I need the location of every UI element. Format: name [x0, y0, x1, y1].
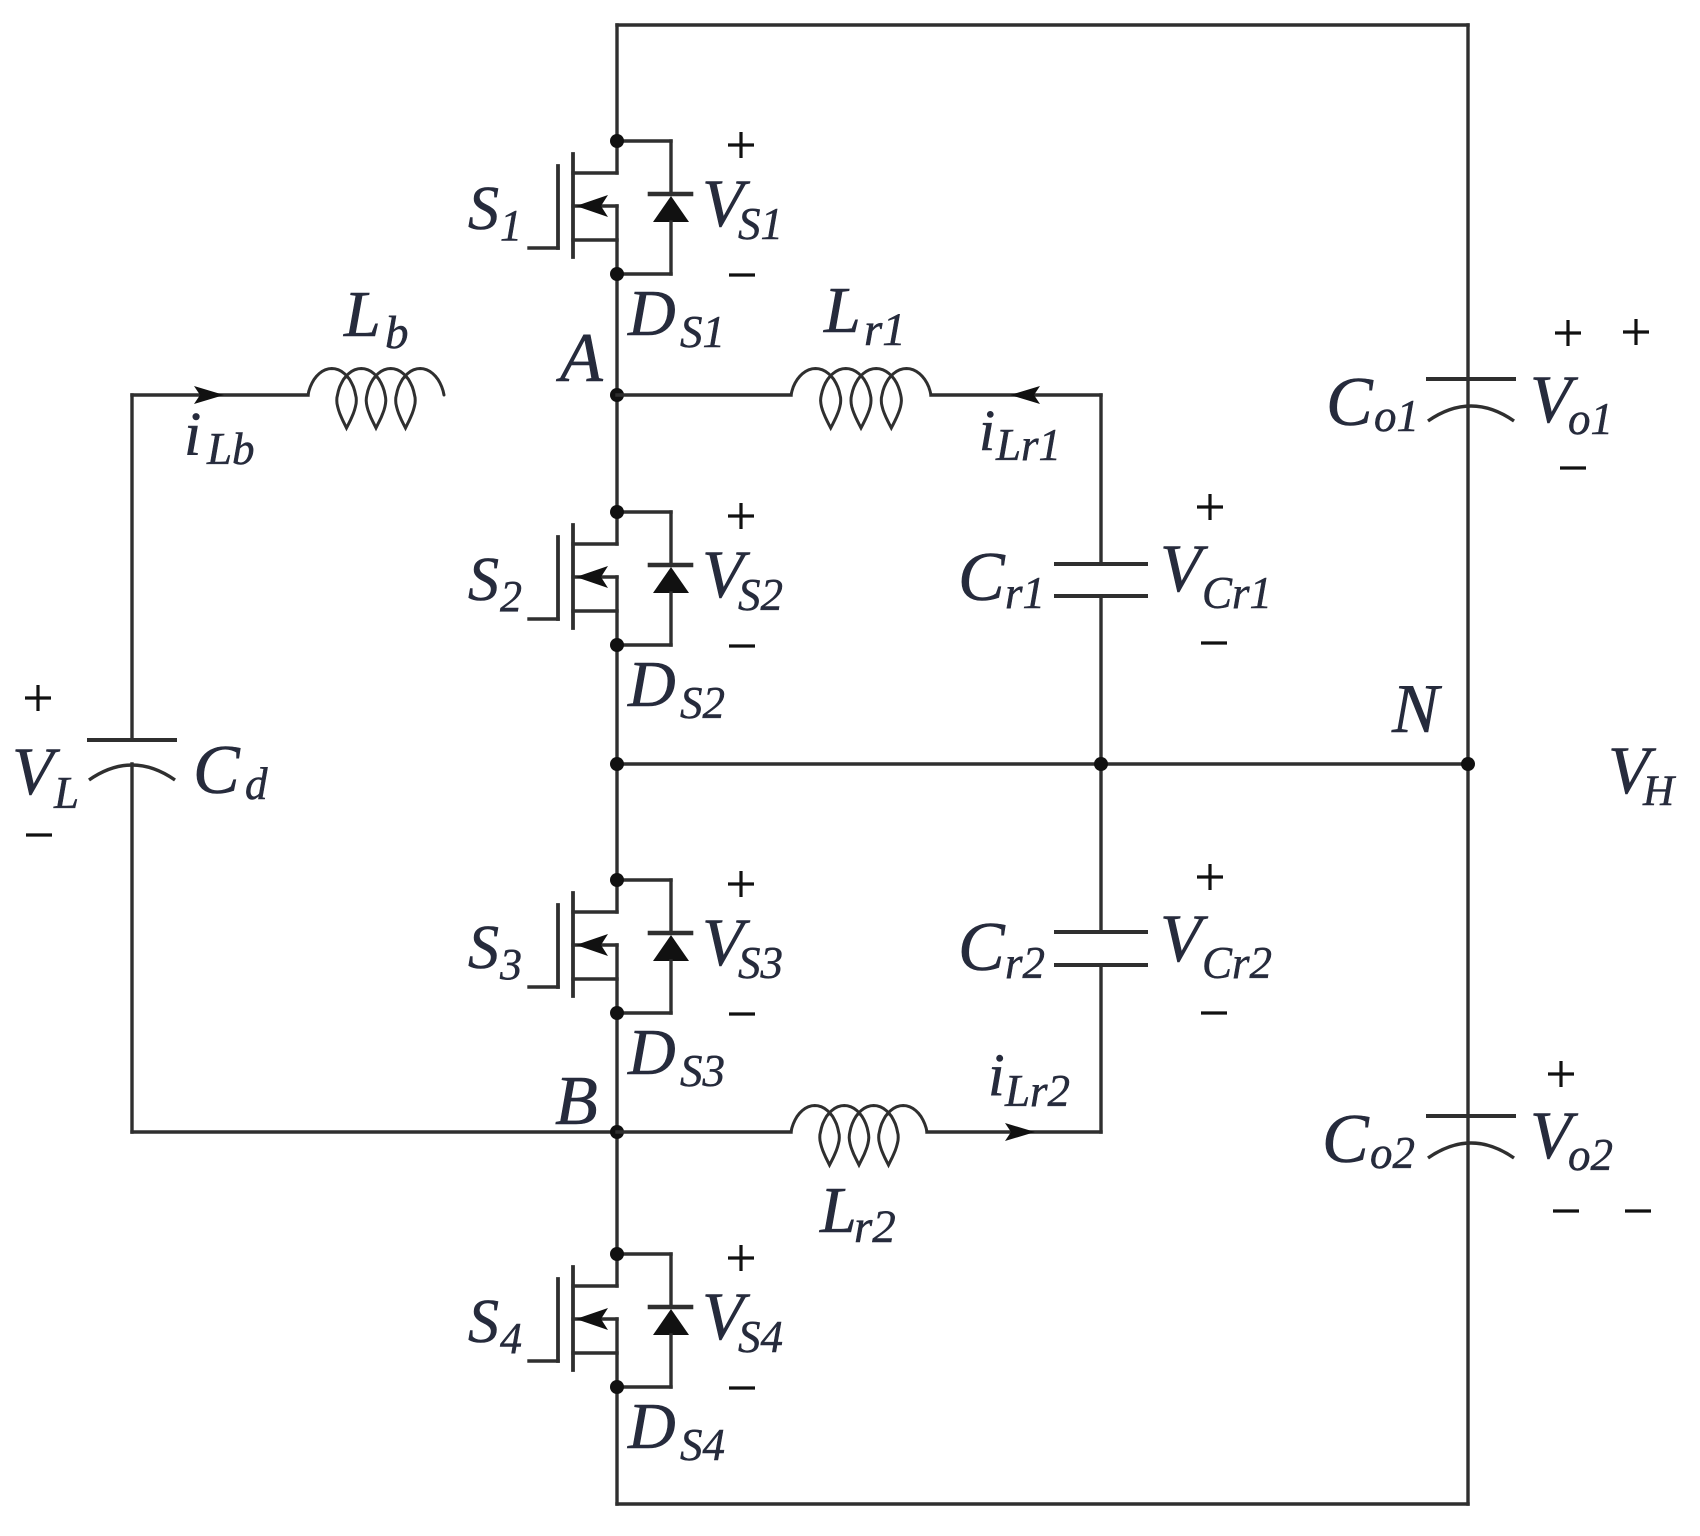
- svg-text:Lr1: Lr1: [995, 420, 1061, 470]
- svg-text:N: N: [1391, 671, 1442, 748]
- svg-text:S1: S1: [738, 199, 783, 249]
- svg-text:r2: r2: [854, 1201, 896, 1253]
- body diode D_S4: [617, 1254, 691, 1387]
- label Vo2 with polarity: [1530, 1061, 1613, 1211]
- label VL with polarity: [12, 685, 79, 835]
- wire: node B to S4 drain: [615, 1132, 618, 1254]
- svg-text:o1: o1: [1374, 391, 1419, 441]
- node B dot: [610, 1125, 624, 1139]
- svg-text:S3: S3: [738, 938, 783, 988]
- current arrow iLr1 (points left): [1010, 386, 1040, 404]
- svg-text:S3: S3: [680, 1046, 725, 1096]
- svg-text:C: C: [958, 909, 1006, 986]
- svg-text:r1: r1: [1005, 568, 1045, 618]
- inductor Lr2: [791, 1106, 927, 1166]
- wire: S3 source to node B: [615, 1014, 618, 1132]
- current arrow iLb: [194, 386, 224, 404]
- svg-text:B: B: [555, 1063, 598, 1140]
- svg-text:Cr1: Cr1: [1202, 568, 1272, 618]
- junction dot source S2: [610, 638, 624, 652]
- label V_S1 with polarity: [702, 132, 783, 275]
- wire: top rail: [617, 23, 1468, 26]
- svg-text:4: 4: [500, 1314, 522, 1363]
- current arrow iLr2 (points right): [1005, 1123, 1035, 1141]
- node N dot: [1461, 757, 1475, 771]
- inductor Lb: [308, 369, 444, 429]
- wire: bottom rail: [617, 1502, 1468, 1505]
- svg-text:i: i: [988, 1042, 1005, 1108]
- svg-text:Lr2: Lr2: [1004, 1066, 1070, 1116]
- svg-text:S2: S2: [680, 678, 725, 728]
- wire: left feed to inductor Lb: [132, 393, 308, 396]
- junction dot source S4: [610, 1380, 624, 1394]
- wire: node N rail to S3 drain: [615, 764, 618, 880]
- transistor S2 (MOSFET with body diode): [529, 512, 617, 645]
- svg-text:Cr2: Cr2: [1202, 938, 1272, 988]
- wire: left return to node B: [132, 1130, 617, 1133]
- junction dot drain S2: [610, 505, 624, 519]
- wire: top rail to S1 drain: [615, 25, 618, 141]
- svg-text:Lb: Lb: [206, 424, 255, 474]
- junction dot drain S4: [610, 1247, 624, 1261]
- wire: Cd bottom lead down the left side: [130, 764, 133, 1132]
- svg-text:D: D: [627, 1016, 676, 1089]
- body diode D_S2: [617, 512, 691, 645]
- wire: Cr branch upper (Lr1 to Cr1): [1099, 395, 1102, 564]
- wire: S4 source to bottom rail: [615, 1387, 618, 1504]
- svg-text:o2: o2: [1568, 1130, 1613, 1180]
- svg-text:L: L: [823, 274, 861, 347]
- svg-text:C: C: [1326, 364, 1374, 441]
- svg-text:S1: S1: [680, 307, 725, 357]
- label Vo1 with polarity: [1530, 320, 1613, 468]
- wire: right bus (VH side): [1466, 25, 1469, 1504]
- wire: S2 source to node N rail: [615, 645, 618, 764]
- svg-text:C: C: [958, 539, 1006, 616]
- wire: Cr1 to Cr2: [1099, 596, 1102, 932]
- label V_S3 with polarity: [702, 871, 783, 1014]
- svg-text:1: 1: [500, 201, 522, 250]
- wire: S1 source to node A: [615, 274, 618, 395]
- wire: left vertical branch (Cd top lead): [130, 395, 133, 740]
- svg-text:H: H: [1642, 768, 1676, 815]
- svg-text:d: d: [245, 759, 268, 809]
- wire: Lr1 to Cr1 branch: [931, 393, 1101, 396]
- svg-text:S: S: [468, 546, 499, 614]
- body diode D_S1: [617, 141, 691, 274]
- svg-text:S: S: [468, 1288, 499, 1356]
- svg-text:S4: S4: [738, 1312, 783, 1362]
- svg-text:S: S: [468, 175, 499, 243]
- wire: node A to S2 drain: [615, 395, 618, 512]
- svg-text:S2: S2: [738, 570, 783, 620]
- node A dot: [610, 388, 624, 402]
- svg-text:L: L: [53, 768, 79, 818]
- transistor S1 (MOSFET with body diode): [529, 141, 617, 274]
- capacitor Co1 (polarized): [1428, 379, 1514, 421]
- body diode D_S3: [617, 880, 691, 1013]
- capacitor Cr1: [1056, 564, 1146, 596]
- capacitor Co2 (polarized): [1428, 1116, 1514, 1158]
- wire: node N rail: [617, 762, 1468, 765]
- svg-text:C: C: [193, 732, 241, 809]
- svg-text:A: A: [556, 320, 603, 397]
- wire: Lr2 to Cr2 branch: [927, 1130, 1101, 1133]
- capacitor Cd (polarized): [89, 740, 175, 780]
- label V_S4 with polarity: [702, 1245, 783, 1388]
- junction dot source S3: [610, 1006, 624, 1020]
- svg-text:r1: r1: [864, 304, 906, 356]
- junction dot bus/N rail: [610, 757, 624, 771]
- label VCr2 with polarity: [1160, 864, 1272, 1013]
- inductor Lr1: [791, 369, 931, 429]
- svg-text:D: D: [627, 277, 676, 350]
- capacitor Cr2: [1056, 932, 1146, 965]
- junction dot drain S1: [610, 134, 624, 148]
- transistor S3 (MOSFET with body diode): [529, 880, 617, 1013]
- svg-text:2: 2: [500, 572, 522, 621]
- wire: node A to Lr1: [617, 393, 791, 396]
- svg-text:D: D: [627, 1390, 676, 1463]
- svg-text:L: L: [819, 1174, 857, 1247]
- svg-text:3: 3: [499, 940, 522, 989]
- label V_S2 with polarity: [702, 503, 783, 646]
- svg-text:L: L: [343, 278, 381, 351]
- label VCr1 with polarity: [1160, 494, 1272, 643]
- svg-text:i: i: [184, 401, 201, 469]
- svg-text:S: S: [468, 914, 499, 982]
- transistor S4 (MOSFET with body diode): [529, 1254, 617, 1387]
- junction dot source S1: [610, 267, 624, 281]
- junction dot Cr branch/N rail: [1094, 757, 1108, 771]
- label VH plus (outer): [1623, 330, 1649, 333]
- svg-text:b: b: [385, 307, 409, 359]
- svg-text:r2: r2: [1005, 938, 1045, 988]
- svg-text:o1: o1: [1568, 394, 1613, 444]
- svg-text:o2: o2: [1370, 1128, 1415, 1178]
- junction dot drain S3: [610, 873, 624, 887]
- wire: node B to Lr2: [617, 1130, 791, 1133]
- label VH minus (outer): [1625, 1209, 1651, 1212]
- svg-text:S4: S4: [680, 1420, 725, 1470]
- wire: Cr2 to Lr2 wire: [1099, 965, 1102, 1132]
- svg-text:C: C: [1322, 1101, 1370, 1178]
- svg-text:D: D: [627, 648, 676, 721]
- svg-text:i: i: [979, 398, 995, 463]
